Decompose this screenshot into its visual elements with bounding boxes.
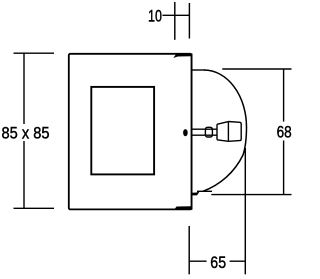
svg-text:65: 65	[210, 253, 226, 272]
front view outer bezel square	[69, 54, 192, 210]
adjuster dot on bezel	[183, 129, 188, 136]
dimension 68 vertical line	[283, 69, 285, 195]
top spring clip wedge	[173, 54, 191, 59]
dimension 68 bottom extension line	[211, 194, 291, 196]
socket barrel	[228, 122, 241, 142]
gasket lip wedge bottom left	[192, 191, 200, 195]
dimension 85x85 top cap	[14, 52, 55, 54]
svg-text:85 x 85: 85 x 85	[2, 124, 50, 143]
body bottom edge	[197, 190, 212, 192]
dimension 68 top extension line	[222, 68, 291, 70]
svg-text:68: 68	[277, 122, 292, 141]
shaft collar	[205, 127, 212, 137]
svg-text:10: 10	[148, 6, 162, 25]
white gap behind 68 label	[275, 122, 294, 141]
body rear arc	[203, 70, 247, 191]
dimension 10 left tick	[174, 2, 176, 40]
connector shaft top line	[192, 128, 217, 130]
body top edge	[192, 69, 205, 71]
white gap behind 85x85 label	[0, 124, 52, 141]
side view front panel line	[191, 54, 193, 210]
dimension 10 leader line	[163, 14, 191, 16]
socket neck trapezoid	[217, 122, 228, 142]
dimension 85x85 bottom cap	[14, 207, 55, 209]
front view inner lens rectangle	[91, 87, 154, 174]
dimension 85x85 vertical line	[23, 53, 25, 208]
dimension 65 horizontal line	[189, 260, 245, 262]
dimension 65 left tick	[188, 226, 190, 274]
dimension 10 right tick	[188, 3, 190, 39]
connector shaft bottom line	[192, 134, 217, 136]
white gap behind 65 label	[207, 253, 230, 269]
bottom spring clip wedge	[174, 206, 191, 209]
dimension 65 right extension line	[244, 148, 246, 274]
